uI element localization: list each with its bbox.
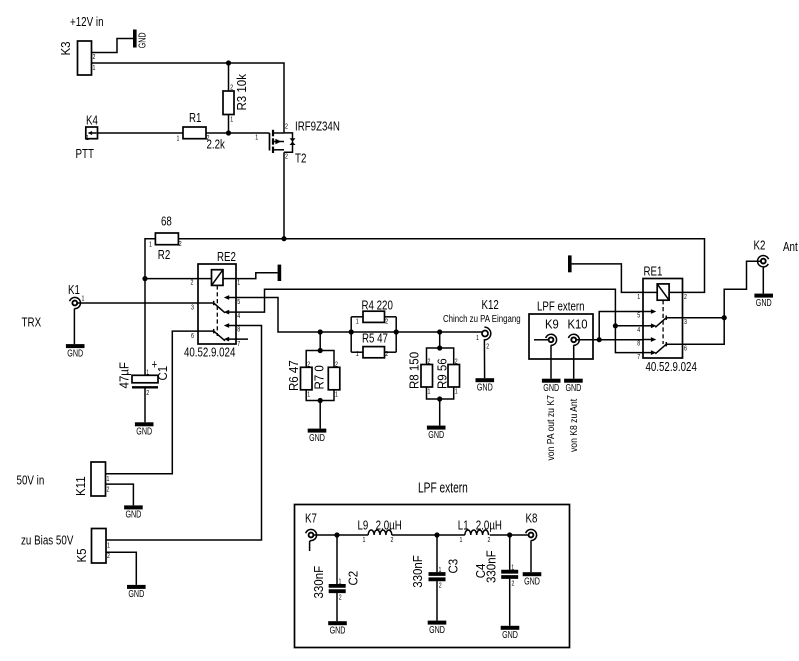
svg-text:2: 2 [488,536,491,544]
svg-text:1: 1 [363,536,366,544]
ground (R6/R7) [308,429,327,443]
svg-text:1: 1 [307,391,310,399]
svg-text:1: 1 [237,279,240,287]
svg-text:2: 2 [107,486,110,494]
wire K7 to L9 [314,534,368,536]
wire L9 to L1 [392,534,465,536]
connector K8 [526,512,538,572]
capacitor C4 330nF [473,535,518,626]
svg-text:C2: C2 [346,571,361,586]
resistor network R8 150 / R9 56 [407,332,460,426]
coil RE2 [212,270,224,286]
wire RE2 pin6 down to K11 [106,331,199,474]
svg-text:330nF: 330nF [410,555,425,588]
svg-text:4: 4 [237,312,240,320]
svg-text:1: 1 [439,566,442,574]
wire RE1 pin3/pin6 to K2 [683,317,725,319]
capacitor C1 47µF [117,358,170,422]
svg-text:GND: GND [136,32,147,48]
svg-text:IRF9Z34N: IRF9Z34N [295,120,340,134]
wire R1 to gate [206,132,270,134]
svg-text:1: 1 [230,116,233,124]
svg-text:R7 0: R7 0 [312,365,327,390]
wire R2 pin2 long top rail [178,239,704,293]
svg-text:2: 2 [146,389,149,397]
wire RE1 pin1 to bar [572,264,643,293]
svg-text:LPF extern: LPF extern [418,478,468,496]
connector K3 [58,41,95,75]
svg-text:K2: K2 [754,239,766,253]
connector K10 [568,334,643,378]
junction node gate/R1/R3 [226,130,231,135]
wire RE2 pin4 to RE1 (long) [236,289,643,352]
bar terminal near RE2 pin1 [278,265,282,281]
svg-text:1: 1 [356,351,359,359]
svg-text:R6 47: R6 47 [286,360,301,391]
svg-text:5: 5 [637,312,640,320]
svg-text:6: 6 [191,332,194,340]
svg-text:47µF: 47µF [117,362,132,388]
svg-text:LPF extern: LPF extern [537,300,585,314]
svg-text:2: 2 [391,536,394,544]
resistor R1 2.2k [177,112,226,152]
svg-text:K5: K5 [74,548,89,562]
ground (K8) [523,572,542,586]
svg-text:L1: L1 [458,519,469,533]
junction C3 node [434,532,439,537]
svg-text:1: 1 [146,369,149,377]
wire K3 pin2 to ground [92,39,134,53]
ground (K2) [754,294,773,308]
svg-text:1: 1 [107,475,110,483]
svg-text:330nF: 330nF [311,566,326,599]
actuator dashed line [662,300,664,344]
ground (K10) [564,379,583,393]
svg-text:1: 1 [428,388,431,396]
wire K10 node to RE1 pin5 [599,312,643,340]
svg-text:7: 7 [637,354,640,362]
inductor L1 2.0µH [458,519,502,544]
svg-text:2: 2 [107,552,110,560]
ground (K9) [542,379,561,393]
svg-text:8: 8 [237,326,240,334]
wire RE2 pin5 to main node line [236,298,482,333]
bar terminal near RE1 pin1 [568,255,572,272]
capacitor C2 330nF [311,535,361,621]
svg-text:Ant: Ant [783,241,798,254]
svg-text:2: 2 [455,358,458,366]
svg-text:R2: R2 [158,249,170,263]
wire K11 pin2 to ground [106,484,134,505]
connector K5 [74,529,110,564]
capacitor C3 330nF [410,535,460,621]
svg-text:T2: T2 [295,152,306,166]
svg-text:C1: C1 [155,366,170,381]
wire RE1 pin4 [615,325,643,327]
resistor network R4 220 / R5 47 [351,299,396,358]
svg-text:K11: K11 [73,476,88,496]
svg-text:40.52.9.024: 40.52.9.024 [184,346,235,360]
svg-text:+12V in: +12V in [70,16,104,29]
svg-text:PTT: PTT [76,148,95,161]
svg-text:2: 2 [307,361,310,369]
connector K1 [68,284,85,344]
junction K2 node [722,315,727,320]
svg-text:TRX: TRX [22,316,42,329]
svg-text:2: 2 [285,153,288,161]
svg-text:R9 56: R9 56 [435,358,450,389]
svg-text:K3: K3 [58,41,73,55]
svg-text:von PA out zu K7: von PA out zu K7 [545,395,557,460]
actuator dashed line [216,285,218,336]
wire RE2 pin8 down to K5 [106,326,262,541]
svg-text:40.52.9.024: 40.52.9.024 [646,361,697,375]
ground (C1) [135,422,154,436]
svg-text:von K8 zu Ant: von K8 zu Ant [568,399,580,452]
svg-text:1: 1 [149,241,152,249]
connector K2 [754,239,769,293]
svg-text:K12: K12 [482,299,499,313]
svg-text:1: 1 [86,134,89,142]
svg-text:1: 1 [177,135,180,143]
connector K12 Chinch zu PA Eingang [443,299,521,378]
svg-text:K8: K8 [526,512,538,526]
svg-text:1: 1 [511,564,514,572]
ground (K11) [124,505,143,519]
resistor R2 68 [149,215,182,262]
svg-text:1: 1 [356,318,359,326]
svg-text:2: 2 [230,84,233,92]
svg-text:8: 8 [637,340,640,348]
connector K4 [86,114,98,142]
wire L1 to K8 [490,534,529,536]
ground (C4) [501,626,520,640]
wire to RE2 pin2 [145,278,198,280]
relay RE2 [184,251,248,360]
svg-text:2: 2 [428,358,431,366]
ground (C3) [428,621,447,635]
ground (K5) [127,585,146,599]
connector K11 [73,462,109,496]
svg-text:50V in: 50V in [17,474,45,487]
svg-text:68: 68 [161,215,172,229]
svg-text:RE2: RE2 [217,251,236,265]
resistor network R6 47 / R7 0 [286,332,339,429]
contact 1 (pins 3-5-4) [666,317,682,319]
svg-text:1: 1 [460,536,463,544]
wire K4 to R1 [98,132,184,134]
junction main line / R6 R7 [318,329,323,334]
transistor T2 IRF9Z34N [255,120,340,166]
svg-text:2: 2 [335,361,338,369]
svg-text:R1: R1 [189,112,201,126]
ground (rotated, near K3) [133,30,148,49]
svg-text:2: 2 [385,318,388,326]
junction node RE2 coil [142,276,147,281]
contact 2 (pins 6-8-7) [198,330,214,332]
svg-text:2: 2 [339,594,342,602]
LPF extern block (bottom) [295,478,570,647]
svg-text:L9: L9 [358,519,369,533]
junction main line / R4 R5 right [394,329,399,334]
svg-text:1: 1 [455,388,458,396]
junction main line / R4 R5 left [349,329,354,334]
wire R2 pin1 down to C1 [145,239,155,376]
wire K1 to RE2 pin3 [78,302,198,304]
svg-text:1: 1 [637,293,640,301]
junction RE1 pin4 node [613,323,618,328]
wire +12V rail K3 pin1 to T2 source [92,63,285,133]
svg-text:R3 10k: R3 10k [234,73,249,110]
connector K7 [305,512,317,551]
wire RE2 pin1 to bar [236,273,278,279]
svg-text:1: 1 [476,334,479,342]
ground (K12) [476,378,495,392]
ground (R8/R9) [427,426,446,440]
svg-text:1: 1 [339,578,342,586]
svg-text:1: 1 [93,64,96,72]
svg-text:1: 1 [82,295,85,303]
ground (K1) [66,344,85,358]
junction K10 / RE1 pin5 riser [597,337,602,342]
svg-text:K9: K9 [545,317,559,332]
svg-text:2: 2 [191,279,194,287]
svg-text:2: 2 [93,53,96,61]
svg-text:zu Bias 50V: zu Bias 50V [21,534,74,547]
svg-text:C3: C3 [446,559,461,574]
LPF extern block (K9/K10) [529,300,593,359]
svg-text:6: 6 [684,345,687,353]
svg-text:2: 2 [285,123,288,131]
svg-text:K10: K10 [568,317,588,332]
junction node T2 drain / R2 / rail [281,236,286,241]
svg-text:R4 220: R4 220 [362,299,393,313]
svg-text:3: 3 [191,304,194,312]
junction C4 node [507,532,512,537]
svg-text:1: 1 [335,391,338,399]
svg-text:1: 1 [255,134,258,142]
wire T2 drain down [283,152,285,238]
junction K7/C2 [334,532,339,537]
svg-text:2: 2 [207,134,210,142]
svg-text:2: 2 [684,293,687,301]
svg-text:330nF: 330nF [484,550,499,583]
svg-text:2: 2 [439,582,442,590]
relay RE1 [637,265,697,374]
svg-text:K7: K7 [305,512,317,526]
svg-text:7: 7 [237,340,240,348]
junction main line / R8 R9 [437,329,442,334]
svg-text:R5 47: R5 47 [362,332,388,346]
svg-text:Chinch zu PA Eingang: Chinch zu PA Eingang [443,313,521,324]
inductor L9 2.0µH [358,519,402,544]
coil RE1 [657,284,669,300]
connector K9 [534,334,557,378]
wire K5 pin2 to ground [106,552,136,585]
ground (C2) [328,621,347,635]
svg-text:R8 150: R8 150 [407,352,422,389]
svg-text:5: 5 [237,298,240,306]
svg-text:2: 2 [486,343,489,351]
svg-text:K4: K4 [86,114,98,128]
svg-text:2.0µH: 2.0µH [476,519,502,533]
contact 1 (pins 3-5-4) [198,302,214,304]
contact 2 (pins 6-8-7) [666,343,682,345]
svg-text:2: 2 [385,350,388,358]
junction node +12V / R3 [226,60,231,65]
svg-text:4: 4 [637,326,640,334]
svg-text:RE1: RE1 [644,265,663,279]
svg-text:2: 2 [179,240,182,248]
svg-text:1: 1 [107,542,110,550]
svg-text:K1: K1 [68,284,80,298]
svg-text:2: 2 [512,580,515,588]
svg-text:2.0µH: 2.0µH [376,519,402,533]
resistor R3 10k [223,63,249,133]
svg-text:3: 3 [684,318,687,326]
